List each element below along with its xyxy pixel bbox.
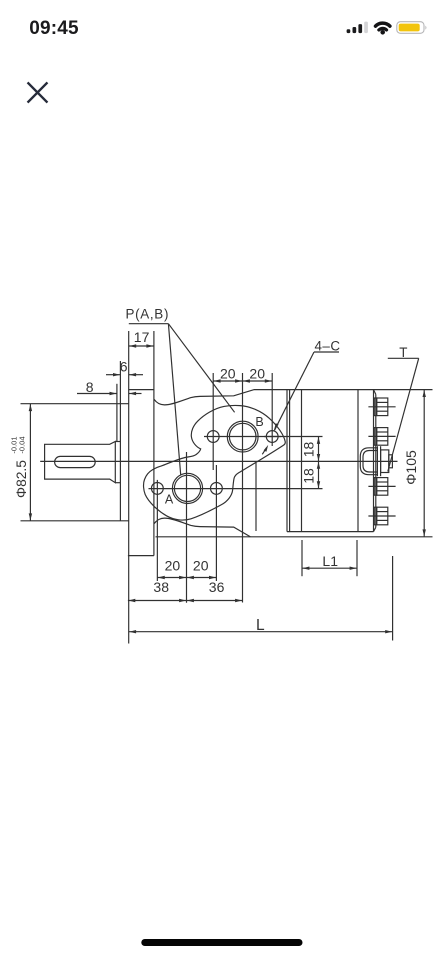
svg-text:Φ105: Φ105 <box>403 450 419 485</box>
svg-text:-0.04: -0.04 <box>18 436 27 453</box>
bolt hole C left of port A <box>151 483 163 495</box>
svg-text:20: 20 <box>249 365 265 381</box>
svg-text:L: L <box>256 617 265 634</box>
extension line hole C right of A <box>215 465 217 581</box>
extension line L1 right <box>356 540 358 576</box>
flange top edge <box>129 389 154 391</box>
svg-text:4–C: 4–C <box>314 339 340 354</box>
port A outer circle <box>172 473 202 503</box>
adapter front edge below port plate <box>255 463 257 531</box>
arrows dim dia 105 <box>423 390 426 397</box>
port B outer circle <box>227 421 258 452</box>
arrows dim 8 <box>110 392 117 395</box>
pointer stub at hole C <box>262 448 266 455</box>
flange bottom edge <box>128 555 154 557</box>
drain plug T (cap nut) <box>360 446 392 476</box>
svg-text:6: 6 <box>120 358 128 374</box>
extension line L right <box>392 556 394 641</box>
arrows dim top 20/20 <box>214 379 221 382</box>
label shelf T <box>388 357 419 359</box>
bolt hole C left of port B <box>207 431 219 443</box>
arrowhead leader 4-C <box>274 423 279 430</box>
rear cover bolt 3 <box>368 478 395 496</box>
dimension line L <box>129 631 393 633</box>
extension line hole C left of A <box>156 480 158 581</box>
svg-text:8: 8 <box>86 379 94 395</box>
dimension line 18/18 <box>318 437 320 489</box>
arrowhead pointer stub <box>264 445 269 452</box>
svg-text:18: 18 <box>301 442 317 458</box>
close button X <box>28 83 46 101</box>
extension line L1 left <box>301 540 303 576</box>
rear cover face <box>373 390 375 532</box>
svg-text:P(A,B): P(A,B) <box>125 306 169 321</box>
rear cover right face with corner steps <box>374 390 376 395</box>
dimension line bottom 20/20 <box>157 577 216 579</box>
arrows dim 6 <box>113 373 120 376</box>
flange rear face (extension line for 17) <box>153 331 155 556</box>
status bar battery icon (low-power yellow) <box>397 22 427 34</box>
svg-text:T: T <box>399 345 407 360</box>
hole C right tick <box>264 436 281 438</box>
svg-text:Φ82.5: Φ82.5 <box>14 460 29 498</box>
extension line for 8 (shaft shoulder) <box>116 384 118 441</box>
motor body front face (double line) <box>286 390 288 532</box>
svg-text:L1: L1 <box>322 553 338 569</box>
extension line port A center <box>186 452 188 603</box>
dimension line 17 <box>129 345 154 347</box>
output shaft <box>45 442 116 483</box>
arrows dim dia 82.5 <box>29 404 32 411</box>
bolt hole C right of port A <box>211 483 223 495</box>
svg-text:B: B <box>255 415 263 429</box>
arrowheads <box>29 344 426 633</box>
extension line hole C left of B <box>212 373 214 470</box>
svg-text:36: 36 <box>209 579 225 595</box>
arrows dim bottom 20/20 <box>158 576 165 579</box>
dimension line dia 82.5 <box>29 404 31 521</box>
arrows dim 18/18 <box>317 437 320 444</box>
shaft collar top edge <box>115 441 120 443</box>
arrows dim L1 <box>302 567 309 570</box>
body joint line (L1 right) <box>357 390 359 532</box>
shaft collar bottom edge <box>115 482 120 484</box>
housing neck bottom contour <box>154 518 250 537</box>
dimension line dia 105 <box>423 390 425 537</box>
dimension line 6 <box>106 374 120 376</box>
port B horizontal centerline (extension for 18) <box>204 436 323 438</box>
keyway <box>55 456 96 467</box>
svg-text:20: 20 <box>193 558 209 574</box>
housing neck top contour <box>154 390 374 405</box>
rear cover bolt 1 <box>368 398 395 416</box>
arrows dim 17 <box>129 344 136 347</box>
extension line hole C right of B <box>271 373 273 446</box>
extension line port B center <box>242 373 244 603</box>
dimension line 38/36 <box>128 600 243 602</box>
dimension line 8 <box>77 393 117 395</box>
pilot bottom edge (extension line of dia 82.5) <box>21 520 129 522</box>
bolt hole C right of port B <box>266 431 278 443</box>
dimension line top 20/20 <box>213 380 272 382</box>
rear cover bolt 4 <box>368 507 395 525</box>
svg-text:A: A <box>165 492 174 506</box>
leader T to drain plug <box>388 358 419 471</box>
port B inner circle <box>229 423 256 450</box>
home indicator bar <box>141 939 302 946</box>
tolerance text -0.01/-0.04 <box>10 436 27 453</box>
flange front face (extension line for 17, 38, L) <box>128 331 130 644</box>
rear cover bolt 2 <box>368 428 395 446</box>
label shelf P(A,B) <box>129 323 169 325</box>
arrows dim L <box>129 630 136 633</box>
arrows dim 38/36 <box>128 599 135 602</box>
top extension line of dia 105 <box>374 389 433 391</box>
body joint line (L1 left) <box>301 390 303 532</box>
leader 4-C to hole C <box>275 352 315 430</box>
port A inner circle <box>174 475 200 501</box>
status bar cellular signal icon <box>347 22 368 33</box>
body bottom edge <box>287 531 374 533</box>
leader P(A,B) to port B <box>168 324 234 413</box>
main axis centerline <box>40 460 397 462</box>
port face plate outline <box>144 405 286 520</box>
port A horizontal centerline (extension for 18) <box>149 488 323 490</box>
label shelf 4-C <box>314 351 339 353</box>
status bar wifi icon <box>376 23 390 34</box>
svg-text:38: 38 <box>153 579 169 595</box>
pilot front face (extension line for 6) <box>119 361 121 521</box>
bottom extension line of dia 105 <box>156 536 433 538</box>
svg-text:18: 18 <box>301 468 317 484</box>
svg-text:20: 20 <box>165 558 181 574</box>
pilot top edge (extension line of dia 82.5) <box>21 403 129 405</box>
leader P(A,B) to port A <box>168 324 180 475</box>
dimension line L1 <box>302 567 357 569</box>
svg-text:09:45: 09:45 <box>29 18 79 39</box>
svg-text:20: 20 <box>220 365 236 381</box>
svg-text:17: 17 <box>134 329 150 345</box>
